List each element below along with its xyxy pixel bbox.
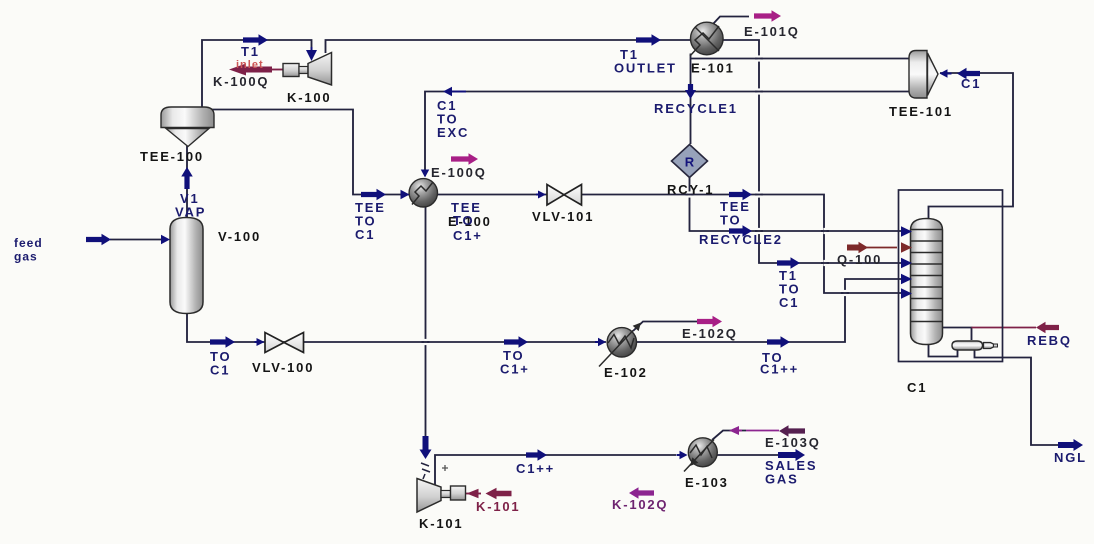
svg-text:VLV-101: VLV-101: [532, 209, 594, 224]
arrowhead C1 into TEE-101: [940, 69, 948, 78]
wire TEE-100 to E-100 (TEE TO C1): [164, 110, 410, 195]
svg-text:OUTLET: OUTLET: [614, 61, 677, 76]
svg-text:K-100: K-100: [287, 90, 331, 105]
svg-text:TEE-101: TEE-101: [889, 104, 953, 119]
arrowhead into K-100: [306, 50, 317, 61]
svg-text:E-101: E-101: [691, 61, 735, 76]
wire K-101Q stub: [466, 493, 482, 495]
wire V-100 bottoms to E-102 (TO C1): [187, 313, 606, 342]
stream arrow T1 OUTLET: [636, 34, 661, 46]
svg-text:RECYCLE1: RECYCLE1: [654, 101, 738, 116]
stream arrow TEE TO (VLV-101 east): [729, 189, 752, 201]
wire RCY-1 to column (RECYCLE2): [690, 178, 902, 232]
stream arrow feed gas: [86, 234, 111, 246]
wire E-101 RECYCLE1 down to RCY-1: [690, 54, 692, 145]
wire Q-100 maroon line: [866, 247, 897, 249]
energy arrow Q-100: [847, 242, 868, 254]
svg-text:C1+: C1+: [453, 228, 483, 243]
svg-text:C1: C1: [210, 362, 230, 377]
energy arrow K-101Q outer: [486, 488, 512, 500]
hook arrowhead E-103: [687, 457, 698, 468]
energy arrow K-100Q: [229, 64, 272, 76]
svg-text:inlet: inlet: [236, 59, 264, 71]
heat exchanger E-102: [599, 328, 637, 367]
svg-text:EXC: EXC: [437, 125, 469, 140]
svg-text:K-101: K-101: [476, 499, 520, 514]
energy arrow REBQ: [1036, 322, 1059, 334]
svg-text:E-100Q: E-100Q: [431, 165, 487, 180]
svg-text:RECYCLE2: RECYCLE2: [699, 232, 783, 247]
svg-text:TO: TO: [720, 212, 741, 227]
stream arrow TO C1++: [767, 336, 790, 348]
svg-text:TEE-100: TEE-100: [140, 149, 204, 164]
energy arrow K-102Q: [629, 487, 654, 499]
svg-text:RCY-1: RCY-1: [667, 182, 714, 197]
wire V1 VAP riser: [186, 146, 188, 217]
feed arrowhead Q-100 into C1: [901, 242, 912, 253]
stream arrow TO C1 (V-100 bottoms): [210, 336, 235, 348]
column C1 vessel: [911, 219, 943, 345]
stream arrow C1++: [526, 449, 547, 461]
stream arrow T1 TO C1: [777, 257, 800, 269]
svg-text:K-102Q: K-102Q: [612, 497, 668, 512]
energy arrow E-102Q: [697, 316, 722, 328]
wire feed gas into V-100: [110, 239, 163, 241]
arrowhead into E-102: [598, 338, 606, 347]
arrowhead into VLV-100: [257, 338, 265, 346]
svg-text:C1++: C1++: [760, 362, 799, 377]
energy arrow E-103Q: [779, 425, 805, 437]
separator V-100: [170, 218, 203, 314]
energy arrowhead E-103Q: [729, 426, 739, 435]
svg-text:E-102: E-102: [604, 365, 648, 380]
hook arrowhead E-102Q: [633, 320, 644, 331]
svg-text:K-100Q: K-100Q: [213, 74, 269, 89]
wire TEE-101 to E-100 top (C1 TO EXC): [425, 92, 910, 177]
tee TEE-101: [909, 51, 938, 99]
wire E-100 to VLV-101: [438, 194, 548, 196]
svg-text:gas: gas: [14, 249, 38, 263]
svg-text:NGL: NGL: [1054, 450, 1087, 465]
wire E-103 outlet (SALES GAS): [718, 454, 779, 456]
tee TEE-100: [161, 107, 214, 147]
energy arrowhead K-101Q: [467, 489, 479, 499]
wire column bottoms / reboiler loop: [929, 345, 958, 357]
stream arrow NGL: [1058, 439, 1083, 451]
svg-text:V-100: V-100: [218, 229, 261, 244]
stream arrow RECYCLE1: [685, 84, 696, 99]
wire E-101 right to column (T1 TO C1): [724, 40, 902, 263]
wire E-100 bottom down to K-101: [425, 207, 427, 438]
feed arrowhead TEE TO into C1: [901, 288, 912, 299]
stream arrow RECYCLE2: [729, 225, 752, 237]
svg-text:T1: T1: [241, 44, 260, 59]
wire E-103Q hook: [712, 431, 746, 441]
wire column overhead to TEE-101 (C1): [929, 73, 1014, 219]
stream arrow V1 VAP: [181, 167, 193, 189]
svg-text:E-103: E-103: [685, 475, 729, 490]
reboiler: [952, 341, 998, 350]
wire TEE-101 top outlet west: [691, 58, 911, 60]
svg-text:feed: feed: [14, 236, 43, 250]
svg-text:TO: TO: [453, 213, 474, 228]
svg-text:C1++: C1++: [516, 461, 555, 476]
svg-text:E-101Q: E-101Q: [744, 24, 800, 39]
svg-text:VAP: VAP: [175, 205, 206, 220]
stream arrow C1 into TEE-101: [957, 68, 980, 80]
wire E-103Q purple line: [746, 430, 779, 432]
arrowhead into VLV-101: [538, 191, 546, 199]
energy arrow E-101Q: [754, 10, 781, 22]
feed arrowhead TO C1++ into C1: [901, 274, 912, 285]
svg-text:E-103Q: E-103Q: [765, 435, 821, 450]
boundary C1 sub-flowsheet: [899, 190, 1003, 362]
valve VLV-101: [547, 185, 582, 206]
wire E-102Q hook: [633, 322, 697, 332]
feed arrowhead RECYCLE2 into C1: [901, 226, 912, 237]
heat exchanger E-100: [409, 179, 437, 207]
arrowhead into E-100: [401, 190, 410, 200]
svg-text:C1: C1: [961, 76, 981, 91]
wire REBQ maroon line: [972, 327, 1037, 329]
svg-text:C1: C1: [779, 295, 799, 310]
wire reboiler energy stub: [943, 328, 972, 341]
wire K-100 outlet to E-101 (T1 OUTLET): [326, 40, 691, 53]
wire K-100Q stub to K-100: [271, 69, 283, 71]
wire reboiler to NGL: [975, 350, 1060, 445]
arrowhead into E-100 top: [421, 170, 430, 178]
stream arrow E-100 to K-101: [420, 436, 432, 459]
arrowhead feed gas at V-100: [161, 235, 170, 245]
arrowhead into E-103: [680, 451, 688, 460]
wire K-101 outlet to E-103 (C1++): [435, 455, 676, 486]
svg-text:K-101: K-101: [419, 516, 463, 531]
junction squiggle K-101 inlet: [421, 463, 430, 479]
svg-text:REBQ: REBQ: [1027, 333, 1072, 348]
heat exchanger E-101: [690, 22, 723, 56]
svg-text:VLV-100: VLV-100: [252, 360, 314, 375]
wire T1 from TEE-100 up and across: [202, 40, 312, 110]
svg-text:C1+: C1+: [500, 362, 530, 377]
svg-text:C1: C1: [355, 227, 375, 242]
stream arrow T1 top: [243, 34, 268, 46]
stream arrow TEE TO C1: [361, 189, 386, 201]
wire E-101Q hook: [713, 17, 749, 25]
compressor K-101: [417, 479, 466, 513]
recycle RCY-1: [672, 145, 708, 178]
heat exchanger E-103: [684, 438, 717, 472]
wire E-102 east up to column (TO C1++): [637, 279, 901, 342]
svg-text:E-102Q: E-102Q: [682, 326, 738, 341]
svg-text:C1: C1: [907, 380, 927, 395]
wire crossing breaks: [757, 55, 760, 61]
feed arrowhead T1 TO C1 into C1: [901, 258, 912, 269]
expander K-100: [283, 53, 332, 86]
valve VLV-100: [265, 333, 304, 353]
stream arrow SALES GAS: [778, 449, 805, 461]
tick mark near K-101 inlet: [442, 465, 448, 471]
svg-text:GAS: GAS: [765, 471, 799, 486]
svg-text:R: R: [685, 155, 695, 170]
arrowhead C1 TO EXC: [443, 87, 452, 97]
energy arrow E-100Q: [451, 153, 478, 165]
stream arrow TO C1+: [504, 336, 528, 348]
wire VLV-101 east to column riser: [582, 195, 902, 294]
svg-text:Q-100: Q-100: [837, 252, 882, 267]
